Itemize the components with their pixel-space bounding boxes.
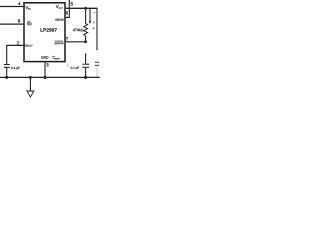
ground symbol stub [29, 77, 31, 91]
capacitor COUT plates (cropped at right edge) [95, 61, 100, 63]
pin number 6 [66, 11, 68, 14]
pin number 5 [71, 2, 73, 5]
pin number 7 [66, 37, 68, 40]
pin label VIN [25, 6, 28, 9]
pin label SENSE [55, 19, 56, 21]
wire ERROR-net cap upper stub [85, 53, 87, 64]
junction dot GND/ground rail [43, 76, 46, 79]
junction dot VOUT/resistor [84, 7, 87, 10]
wire SD input [0, 23, 23, 25]
wire output branch down at right [96, 8, 98, 50]
wire GND pin down [44, 62, 46, 77]
wire C2 bottom stub [85, 68, 87, 78]
pin number 2 [17, 41, 19, 44]
pin number 4 [18, 2, 20, 5]
wire COUT bottom stub [96, 66, 98, 77]
pin label GND [41, 56, 43, 58]
pin label CBYP [53, 56, 56, 59]
cropped label fragment right edge upper [93, 22, 95, 24]
wire VOUT output [66, 7, 98, 9]
capacitor C1 0.1uF plates [4, 64, 10, 66]
wire SENSE/input vertical (cropped at top) [68, 0, 70, 17]
cropped label fragment right edge top [93, 12, 95, 13]
pin label ERROR (active low) [55, 42, 56, 44]
arrowhead to load (down) [89, 21, 92, 24]
wire DELAY cap vertical [6, 45, 8, 64]
resistor R1 bottom lead [85, 36, 87, 42]
resistor R1 value 470kOhm [73, 29, 75, 32]
wire ERROR [66, 41, 86, 43]
wire DELAY [6, 44, 23, 46]
resistor R1 zigzag [84, 24, 88, 36]
junction dot ERROR/resistor [84, 40, 87, 43]
pin label SD (active low) [27, 23, 29, 25]
cropped label fragment right edge lower [93, 27, 95, 29]
IC part number label LP2987 [41, 28, 43, 31]
wire SENSE stub [66, 16, 70, 18]
junction dot C1/ground rail [5, 76, 8, 79]
wire VIN input [0, 6, 23, 8]
pin number 3 [46, 63, 48, 66]
pin number 1 (faint, bottom-right of IC) [67, 64, 69, 66]
pin label VOUT [56, 5, 59, 8]
wire C1 bottom stub [6, 68, 8, 78]
resistor R1 470kOhm pull-up: top lead [85, 8, 87, 23]
pin number 8 [18, 19, 20, 22]
ground symbol triangle [27, 91, 34, 97]
IC U1 LP2987 regulator body [24, 3, 65, 62]
ground rail [0, 76, 100, 78]
capacitor C2 value 0.1uF [71, 67, 72, 69]
junction dot C2/ground rail [84, 76, 87, 79]
capacitor C1 value 0.1uF [11, 67, 12, 69]
capacitor C2 0.1uF plates [82, 63, 89, 65]
wire branch down to load arrow [89, 8, 91, 21]
pin label DELAY [25, 45, 26, 47]
junction dot ground symbol/rail [29, 76, 32, 79]
